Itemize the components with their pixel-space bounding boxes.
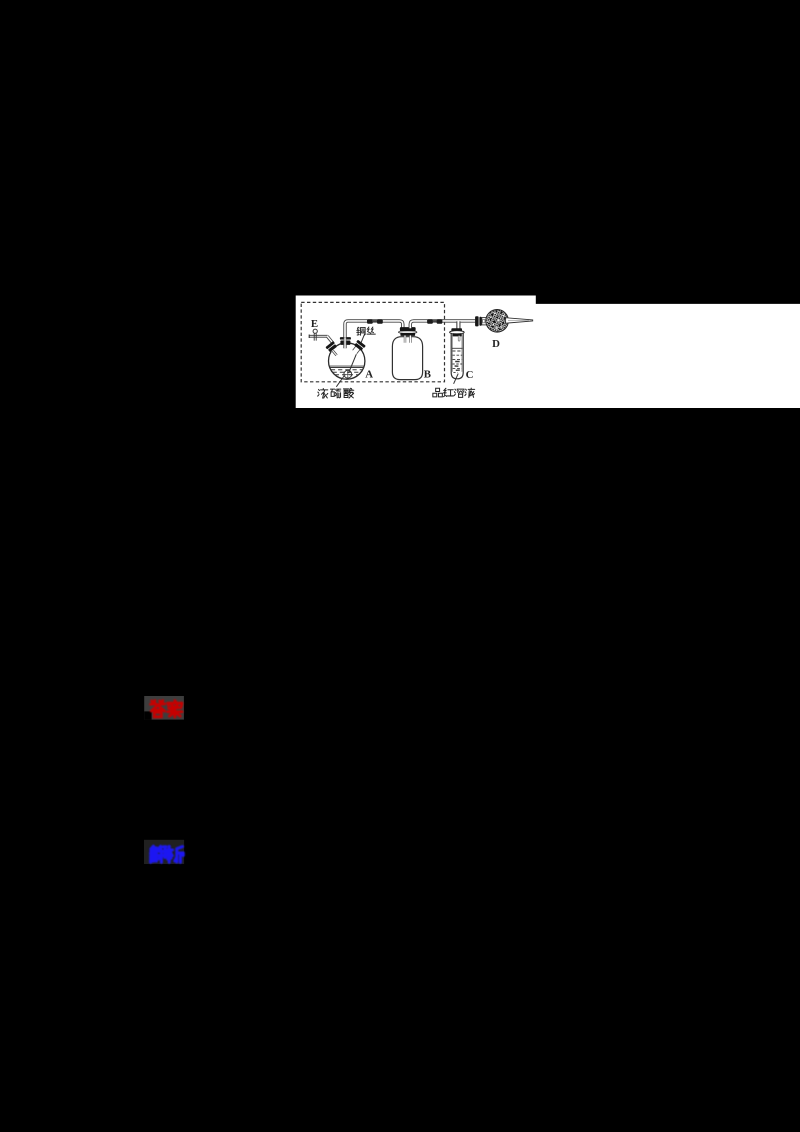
- svg-text:D: D: [492, 338, 500, 350]
- connector pair 2 (B to C tube): [427, 319, 442, 324]
- analysis text 解析: [151, 846, 184, 862]
- test tube C liquid: [452, 348, 462, 372]
- bottle B body: [392, 337, 422, 380]
- flask A body: [329, 343, 365, 379]
- white panel: [296, 296, 800, 409]
- label 铜丝: [357, 327, 376, 335]
- outlet tube of flask A (center neck up and right to B): [345, 321, 403, 348]
- answer badge: [144, 696, 184, 720]
- label 品红溶液: [433, 388, 475, 397]
- cotton ball D: [486, 310, 509, 333]
- stopper right (flask): [350, 340, 366, 356]
- white hub at D: [482, 318, 487, 325]
- svg-text:A: A: [365, 369, 373, 381]
- tube E to flask: [327, 336, 333, 343]
- tube out of B to C: [410, 321, 475, 328]
- stopper left (flask): [325, 341, 341, 357]
- bottle B cap: [399, 327, 417, 336]
- pointer line to acid label: [336, 376, 344, 387]
- test tube C body: [451, 333, 463, 379]
- copper coil in flask: [344, 370, 352, 378]
- nozzle tip of D: [506, 318, 533, 324]
- label 浓硫酸: [318, 388, 354, 398]
- pointer line to solution label: [454, 374, 459, 384]
- pointer line to copper coil (from 铜丝 label): [349, 334, 365, 373]
- bottle B inner tubes: [405, 336, 410, 343]
- connector pair 1 (A to B tube): [367, 319, 383, 324]
- tube down into C stopper: [456, 321, 460, 328]
- left neck tube stub: [333, 351, 337, 356]
- stopper center (flask): [340, 337, 351, 348]
- analysis badge: [144, 840, 184, 864]
- test tube C inner tube: [458, 337, 460, 341]
- dashed enclosure: [301, 302, 444, 381]
- flask A liquid: [330, 366, 364, 375]
- svg-text:B: B: [424, 369, 431, 381]
- connector ring at D: [475, 316, 482, 326]
- svg-text:C: C: [466, 369, 474, 381]
- svg-text:E: E: [311, 318, 318, 330]
- test tube C stopper: [450, 328, 465, 336]
- stopcock E: [309, 329, 327, 341]
- answer text 答案: [151, 701, 182, 718]
